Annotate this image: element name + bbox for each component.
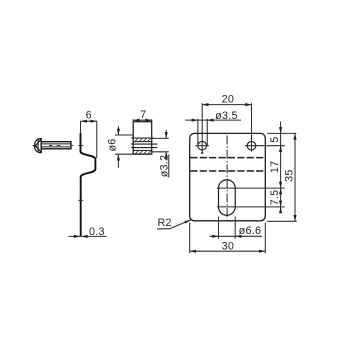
- screw centerline: [32, 145, 73, 147]
- right ext lines: [267, 132, 296, 134]
- dim ø6 ext lines: [115, 134, 133, 136]
- svg-text:R2: R2: [158, 217, 172, 229]
- dim ø3.5 line + arrows: [185, 119, 241, 122]
- slot centerline top (ext 17): [217, 187, 285, 189]
- svg-text:ø3.2: ø3.2: [158, 155, 170, 178]
- dim 6 line: [81, 120, 97, 123]
- dim 35 line: [293, 133, 296, 221]
- bracket profile (sheet section): [81, 133, 96, 237]
- dim ø3.2 line + arrows: [165, 130, 168, 159]
- dim 20: [202, 103, 251, 106]
- screw M3 head: [35, 139, 42, 153]
- slot ø6.6: [219, 180, 236, 215]
- dim ø6 line + arrows: [117, 126, 120, 167]
- hole left centerlines: [195, 145, 209, 147]
- label R2 leader: [157, 220, 191, 229]
- svg-text:35: 35: [283, 169, 295, 182]
- bend line lower (hidden): [190, 170, 264, 172]
- bend line upper (hidden): [190, 157, 264, 159]
- svg-text:17: 17: [269, 161, 281, 174]
- svg-text:30: 30: [222, 240, 235, 252]
- dim 7 ext lines: [132, 119, 134, 121]
- dim ø3.5 tangent ext lines: [197, 119, 199, 146]
- hole left ø3.5: [198, 141, 207, 150]
- plate vertical centerline: [226, 135, 228, 219]
- dim 6 extension right: [96, 121, 98, 158]
- bushing outline: [133, 122, 152, 155]
- dim 7 line: [133, 119, 152, 122]
- chain dim line 5/17/7.5: [279, 122, 282, 214]
- svg-text:6: 6: [86, 109, 92, 121]
- slot centerline bottom (ext 7.5): [217, 206, 285, 208]
- svg-text:5: 5: [269, 136, 281, 142]
- dim 30 ext lines: [189, 223, 191, 254]
- hole right ø3.5: [247, 141, 256, 150]
- hatch band lower: [133, 150, 152, 154]
- svg-text:7.5: 7.5: [269, 190, 281, 206]
- svg-text:7: 7: [140, 109, 146, 121]
- centerline tick lower: [78, 199, 83, 201]
- plate outline: [190, 133, 266, 220]
- dim ø3.2 ext lines: [152, 137, 169, 139]
- svg-text:20: 20: [222, 93, 235, 105]
- dim 30 line: [190, 250, 266, 253]
- centerline tick on profile: [78, 145, 83, 147]
- dim ø6.6 line + arrows: [210, 235, 263, 238]
- hatch band upper: [131, 138, 153, 142]
- svg-text:ø3.5: ø3.5: [215, 110, 238, 122]
- dim 6 extension left: [80, 121, 82, 133]
- screw shank: [41, 142, 71, 149]
- hole left lower arrowhead: [201, 150, 204, 153]
- svg-text:ø6: ø6: [107, 138, 119, 151]
- svg-text:ø6.6: ø6.6: [239, 225, 262, 237]
- bore lines: [131, 143, 157, 145]
- svg-text:0.3: 0.3: [89, 226, 105, 238]
- hole right centerlines: [245, 145, 285, 147]
- dim ø6.6 ext lines: [218, 217, 220, 239]
- dim ø3.2 text + shelf: [168, 155, 170, 178]
- dim 0.3 line: [68, 235, 106, 238]
